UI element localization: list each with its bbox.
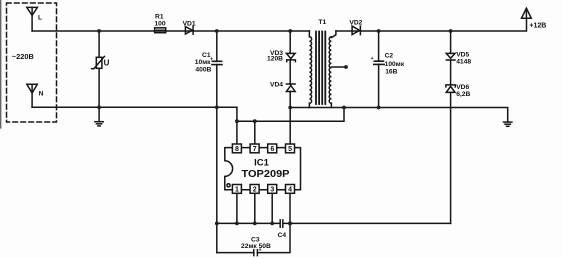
svg-text:2: 2	[253, 186, 257, 193]
svg-text:U: U	[104, 58, 110, 67]
svg-text:6: 6	[270, 146, 274, 153]
svg-text:4148: 4148	[456, 58, 471, 65]
svg-text:+: +	[259, 248, 262, 254]
svg-text:VD1: VD1	[183, 21, 196, 28]
svg-text:VD6: VD6	[456, 84, 469, 91]
svg-text:100: 100	[154, 21, 165, 28]
svg-text:5: 5	[288, 146, 292, 153]
svg-text:3: 3	[270, 186, 274, 193]
svg-text:VD4: VD4	[270, 82, 283, 89]
svg-text:22мк 50В: 22мк 50В	[241, 243, 271, 250]
svg-text:R1: R1	[155, 13, 164, 20]
svg-text:4: 4	[288, 186, 292, 193]
svg-text:100мк: 100мк	[385, 61, 405, 68]
svg-text:16В: 16В	[385, 68, 397, 75]
svg-text:TOP209P: TOP209P	[242, 169, 290, 180]
svg-text:+: +	[210, 57, 213, 63]
svg-text:T1: T1	[318, 19, 326, 26]
svg-text:10мк: 10мк	[195, 59, 211, 66]
svg-text:1: 1	[235, 186, 239, 193]
svg-text:+: +	[371, 56, 374, 62]
svg-text:L: L	[38, 14, 42, 21]
svg-text:C2: C2	[385, 53, 394, 60]
svg-text:IC1: IC1	[254, 157, 270, 168]
svg-text:7: 7	[253, 146, 257, 153]
svg-text:6,2В: 6,2В	[456, 91, 470, 98]
svg-text:C4: C4	[278, 232, 287, 239]
svg-text:VD2: VD2	[349, 19, 362, 26]
svg-text:+12В: +12В	[529, 23, 546, 30]
svg-text:VD5: VD5	[456, 51, 469, 58]
svg-text:400В: 400В	[195, 67, 211, 74]
svg-text:120В: 120В	[267, 56, 283, 63]
svg-text:8: 8	[235, 146, 239, 153]
svg-text:N: N	[39, 91, 44, 98]
svg-text:~220В: ~220В	[12, 52, 34, 61]
